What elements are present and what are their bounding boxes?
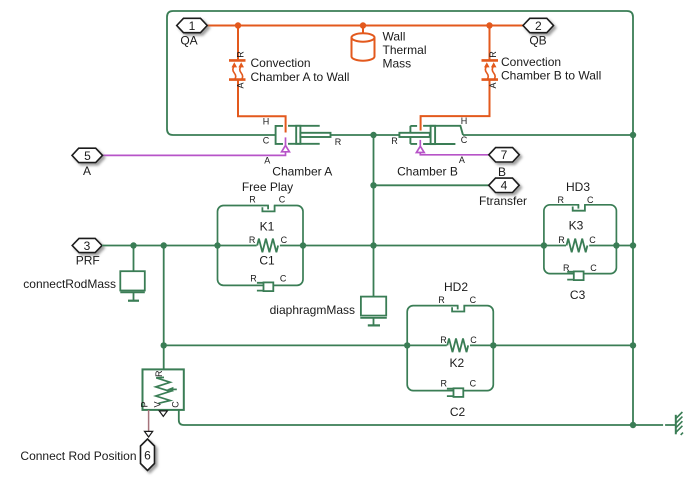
- svg-text:R: R: [250, 273, 257, 283]
- svg-text:Ftransfer: Ftransfer: [479, 194, 527, 208]
- svg-text:B: B: [498, 165, 506, 179]
- svg-text:R: R: [335, 137, 342, 147]
- convection Convection Chamber B to Wall: [421, 26, 498, 131]
- svg-text:A: A: [236, 82, 246, 88]
- converter Chamber B: [399, 126, 463, 144]
- svg-text:HD2: HD2: [444, 280, 468, 294]
- svg-text:1: 1: [189, 19, 196, 33]
- svg-text:2: 2: [535, 19, 542, 33]
- damper C2: [447, 388, 463, 397]
- wire: Ftransfer: [374, 184, 489, 186]
- wire: vertical to motion sensor: [163, 246, 165, 370]
- damper C3: [567, 271, 583, 280]
- svg-text:C: C: [279, 194, 286, 204]
- svg-text:P: P: [140, 401, 150, 407]
- svg-text:C: C: [587, 195, 594, 205]
- svg-text:R: R: [236, 51, 246, 58]
- svg-text:A: A: [264, 156, 270, 166]
- svg-text:R: R: [249, 194, 256, 204]
- wire: green container box (chamber A C-port, left, top, right bus): [167, 11, 633, 425]
- junction dot: [370, 132, 376, 138]
- wire: chamber A R to chamber B R: [331, 134, 400, 136]
- port 5: [72, 148, 103, 162]
- svg-text:A: A: [459, 155, 465, 165]
- spring K3: [566, 239, 589, 253]
- svg-text:4: 4: [501, 179, 508, 193]
- spring K2: [447, 339, 470, 353]
- svg-text:PRF: PRF: [76, 253, 100, 267]
- wire: magenta port A of chamber A: [103, 137, 290, 155]
- svg-text:HD3: HD3: [566, 180, 590, 194]
- svg-text:R: R: [249, 235, 256, 245]
- wire: sensor C to bottom bus and reference: [179, 410, 677, 425]
- svg-text:C: C: [470, 335, 477, 345]
- svg-text:R: R: [154, 370, 164, 377]
- svg-text:C3: C3: [570, 288, 586, 302]
- hard stop HD2: [452, 304, 464, 311]
- svg-text:7: 7: [501, 148, 508, 162]
- sensor block (motion sensor): [143, 369, 184, 410]
- port marker triangle above port 6: [145, 431, 153, 437]
- svg-text:C: C: [589, 235, 596, 245]
- wire: chamber B C to right bus: [463, 134, 633, 136]
- svg-text:Connect Rod Position: Connect Rod Position: [20, 449, 136, 463]
- wire: orange top thermal bus: [207, 25, 523, 27]
- svg-text:R: R: [557, 195, 564, 205]
- svg-text:3: 3: [84, 239, 91, 253]
- wire: K2 row: [164, 344, 633, 346]
- svg-text:C: C: [263, 135, 270, 145]
- svg-text:C: C: [281, 235, 288, 245]
- V port marker triangle: [159, 411, 167, 417]
- junction dot: [630, 132, 636, 138]
- junction dot: [630, 422, 636, 428]
- svg-text:C: C: [461, 135, 468, 145]
- hard stop HD3: [573, 203, 585, 210]
- thermal mass: Wall Thermal Mass: [352, 26, 375, 61]
- port 4: [489, 178, 520, 192]
- svg-text:A: A: [83, 164, 91, 178]
- svg-text:R: R: [563, 263, 570, 273]
- svg-text:C: C: [470, 295, 477, 305]
- wire: main row PRF to right bus: [102, 245, 633, 247]
- convection Convection Chamber A to Wall: [229, 26, 286, 133]
- svg-text:K2: K2: [449, 356, 464, 370]
- svg-text:Chamber B: Chamber B: [397, 165, 458, 179]
- svg-text:K1: K1: [260, 219, 275, 233]
- svg-text:connectRodMass: connectRodMass: [23, 277, 116, 291]
- mass connectRodMass: [120, 246, 145, 301]
- group K3/C3/HD3 box: [544, 205, 617, 274]
- svg-text:Convection: Convection: [251, 56, 311, 70]
- svg-text:Chamber A: Chamber A: [272, 165, 332, 179]
- svg-text:C: C: [171, 401, 181, 408]
- svg-text:5: 5: [84, 149, 91, 163]
- svg-text:Wall: Wall: [383, 30, 406, 44]
- svg-text:R: R: [440, 335, 447, 345]
- svg-text:Chamber A to Wall: Chamber A to Wall: [251, 70, 350, 84]
- svg-text:C: C: [590, 263, 597, 273]
- svg-text:Convection: Convection: [501, 55, 561, 69]
- svg-text:diaphragmMass: diaphragmMass: [270, 303, 355, 317]
- port 3: [72, 238, 102, 252]
- svg-text:QB: QB: [529, 34, 546, 48]
- svg-text:C: C: [470, 379, 477, 389]
- junction dot: [161, 342, 167, 348]
- damper C1: [257, 282, 273, 291]
- svg-text:R: R: [488, 51, 498, 58]
- wire: vertical to diaphragmMass: [373, 135, 375, 297]
- ground: translational reference: [663, 424, 665, 428]
- group K1/C1/FreePlay box: [218, 206, 304, 286]
- port 2: [523, 18, 554, 32]
- wire: magenta port A of chamber B: [416, 140, 488, 155]
- junction dot (bus / convection A): [235, 22, 241, 28]
- svg-text:V: V: [153, 401, 163, 407]
- svg-text:K3: K3: [569, 219, 584, 233]
- svg-text:C2: C2: [450, 405, 466, 419]
- svg-text:H: H: [461, 116, 468, 126]
- wire: red P to port 6: [148, 410, 150, 431]
- port 6: [141, 439, 155, 471]
- junction dot (bus / wall mass): [360, 22, 366, 28]
- group K2/C2/HD2 box: [407, 306, 493, 391]
- svg-text:C1: C1: [259, 254, 275, 268]
- svg-text:A: A: [488, 82, 498, 88]
- svg-text:Chamber B to Wall: Chamber B to Wall: [501, 69, 601, 83]
- svg-text:Free Play: Free Play: [242, 180, 293, 194]
- mass diaphragmMass: [360, 297, 387, 326]
- svg-text:QA: QA: [180, 34, 197, 48]
- port 7: [489, 148, 520, 162]
- svg-text:R: R: [438, 295, 445, 305]
- junction dot (bus / convection B): [486, 22, 492, 28]
- svg-text:R: R: [558, 235, 565, 245]
- converter Chamber A: [276, 126, 331, 144]
- junction dot: [370, 182, 376, 188]
- junction dots on main row: [130, 242, 136, 248]
- svg-text:6: 6: [144, 449, 151, 463]
- port 1: [177, 18, 208, 32]
- svg-text:C: C: [280, 273, 287, 283]
- svg-text:H: H: [263, 116, 270, 126]
- spring K1: [257, 239, 280, 253]
- svg-text:R: R: [440, 379, 447, 389]
- svg-text:Thermal: Thermal: [383, 43, 427, 57]
- hard stop Free Play: [262, 204, 274, 211]
- svg-text:Mass: Mass: [383, 57, 412, 71]
- svg-text:R: R: [391, 136, 398, 146]
